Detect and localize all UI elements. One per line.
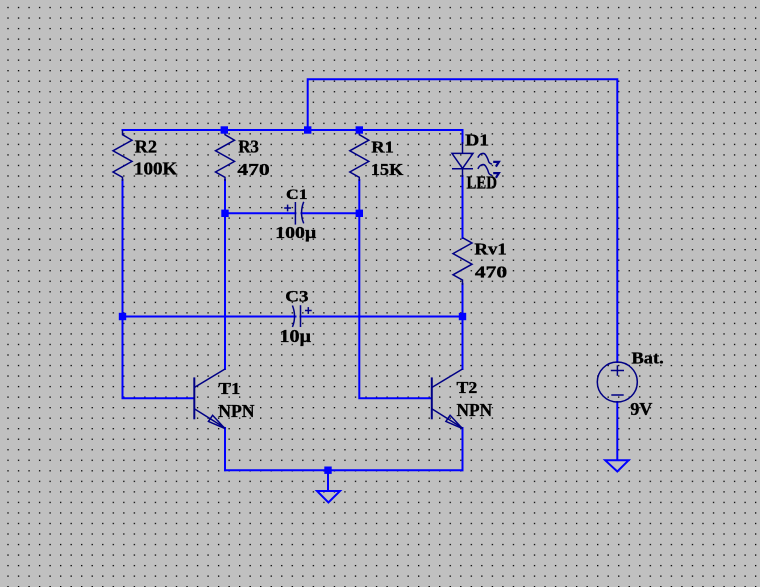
diode D1 (452, 142, 473, 177)
resistor Rv1 (453, 238, 472, 285)
svg-text:T1: T1 (219, 379, 241, 398)
junction ground (324, 467, 331, 474)
svg-text:D1: D1 (465, 131, 489, 150)
wire R1 column to T2 base (359, 180, 431, 398)
svg-text:R3: R3 (238, 137, 259, 157)
junction rail R3 (221, 126, 228, 133)
capacitor C3 (292, 305, 311, 327)
capacitor C1 (284, 202, 304, 225)
svg-text:100K: 100K (134, 159, 178, 179)
wire ground stub (327, 470, 329, 491)
svg-text:R1: R1 (371, 138, 394, 157)
wire C3 right (301, 316, 463, 318)
wire battery to ground (616, 402, 618, 460)
resistor R3 (216, 130, 235, 181)
svg-text:10µ: 10µ (280, 326, 312, 346)
svg-text:LED: LED (467, 172, 498, 192)
wire C3 left (123, 316, 296, 318)
wire T2 emitter down (462, 428, 464, 470)
svg-text:C3: C3 (285, 288, 309, 305)
wire top rail to battery (308, 79, 618, 362)
transistor T1 (194, 369, 225, 429)
junction rail tap (304, 126, 311, 133)
svg-text:C1: C1 (286, 187, 308, 203)
wire R3 column to T1 collector (224, 180, 226, 369)
junction C3 left (119, 313, 126, 320)
wire C1 left (225, 212, 295, 214)
svg-text:Bat.: Bat. (632, 349, 664, 368)
LED light arrow 2 (478, 165, 499, 178)
svg-text:100µ: 100µ (275, 223, 317, 242)
svg-text:NPN: NPN (218, 401, 254, 421)
svg-text:T2: T2 (457, 378, 478, 397)
svg-text:R2: R2 (135, 136, 157, 156)
svg-text:Rv1: Rv1 (474, 240, 506, 259)
wire T1 emitter to bottom rail (224, 428, 226, 470)
svg-text:15K: 15K (371, 160, 404, 179)
junction C1 right (356, 210, 363, 217)
wire D1 top lead (462, 130, 464, 143)
ground battery (605, 460, 628, 471)
wire R2 column to T1 base (123, 180, 194, 398)
junction C1 left (221, 210, 228, 217)
svg-text:470: 470 (237, 160, 269, 179)
wire Rv1 to T2 collector (462, 284, 464, 369)
LED light arrow 1 (478, 153, 499, 166)
resistor R2 (113, 130, 132, 181)
junction rail R1 (356, 126, 363, 133)
resistor R1 (350, 130, 369, 181)
wire C1 right (302, 212, 360, 214)
svg-text:470: 470 (475, 263, 507, 282)
wire Vcc rail (123, 129, 463, 131)
wire bottom rail (225, 469, 463, 471)
svg-text:9V: 9V (630, 399, 653, 419)
transistor T2 (432, 369, 463, 429)
wire D1 cathode to Rv1 (462, 176, 464, 238)
ground left (317, 491, 340, 503)
battery Bat. (597, 362, 637, 402)
svg-text:NPN: NPN (457, 400, 493, 420)
junction C3 right (459, 313, 466, 320)
